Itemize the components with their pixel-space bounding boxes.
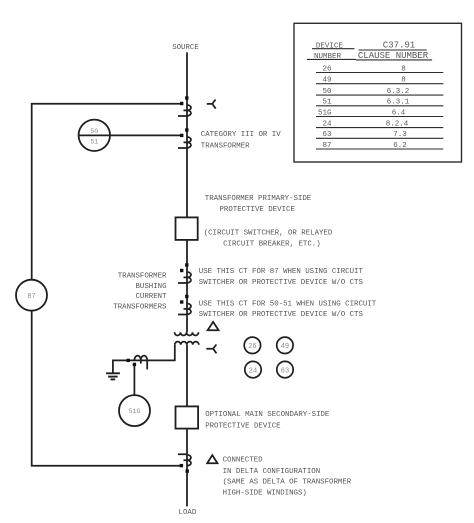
- wire 87 differential loop: top run, left rail, bottom run: [32, 104, 182, 466]
- relay 51G: [119, 395, 150, 426]
- svg-text:CATEGORY III OR IV: CATEGORY III OR IV: [201, 131, 281, 139]
- transformer T1 secondary winding: [175, 342, 199, 345]
- current transformer CT4 (bushing CT for 50-51): [178, 295, 191, 315]
- relay 87: [16, 280, 47, 311]
- wire neutral CT to 51G: [133, 366, 135, 395]
- relay 26: [244, 337, 260, 353]
- wire transformer neutral to ground: [113, 345, 175, 373]
- secondary-side protective device box: [176, 406, 199, 428]
- svg-text:SWITCHER OR PROTECTIVE DEVICE: SWITCHER OR PROTECTIVE DEVICE W/O CTS: [199, 279, 364, 287]
- transformer T1 primary winding: [175, 332, 199, 335]
- relay 63: [277, 361, 293, 377]
- label USE THIS CT FOR 50-51: [199, 300, 377, 319]
- current transformer CT5 (bottom, to 87): [178, 454, 191, 473]
- svg-text:USE THIS CT FOR 50-51 WHEN USI: USE THIS CT FOR 50-51 WHEN USING CIRCUIT: [199, 300, 377, 308]
- svg-text:SOURCE: SOURCE: [172, 44, 199, 52]
- label OPTIONAL MAIN SECONDARY-SIDE PROTECTIVE DEVICE: [205, 411, 330, 430]
- svg-text:CURRENT: CURRENT: [135, 293, 167, 301]
- label CONNECTED IN DELTA CONFIGURATION: [223, 457, 352, 498]
- svg-text:49: 49: [281, 343, 289, 351]
- table: device number / C37.91 clause reference: [294, 23, 462, 162]
- svg-text:(CIRCUIT SWITCHER, OR RELAYED: (CIRCUIT SWITCHER, OR RELAYED: [204, 230, 333, 238]
- current transformer CT6 (neutral CT): [127, 356, 148, 370]
- wire main bus (source to transformer primary): [186, 52, 188, 332]
- svg-text:LOAD: LOAD: [179, 509, 197, 517]
- relay 49: [277, 337, 293, 353]
- current transformer CT3 (bushing CT for 87): [178, 263, 191, 283]
- primary-side protective device box: [176, 217, 198, 240]
- svg-text:TRANSFORMER: TRANSFORMER: [118, 273, 167, 281]
- wye symbol (secondary winding configuration): [206, 345, 216, 354]
- svg-text:24: 24: [249, 367, 257, 375]
- svg-text:TRANSFORMER: TRANSFORMER: [201, 143, 250, 151]
- svg-text:TRANSFORMERS: TRANSFORMERS: [113, 304, 167, 312]
- delta symbol (primary winding configuration): [208, 322, 219, 330]
- svg-text:(SAME AS DELTA OF TRANSFORMER: (SAME AS DELTA OF TRANSFORMER: [223, 479, 352, 487]
- svg-text:PROTECTIVE DEVICE: PROTECTIVE DEVICE: [205, 422, 281, 430]
- svg-text:HIGH-SIDE WINDINGS): HIGH-SIDE WINDINGS): [223, 489, 307, 497]
- svg-text:OPTIONAL MAIN SECONDARY-SIDE: OPTIONAL MAIN SECONDARY-SIDE: [205, 411, 330, 419]
- relay 50/51: [79, 120, 110, 151]
- svg-text:DEVICE: DEVICE: [316, 43, 344, 51]
- svg-text:SWITCHER OR PROTECTIVE DEVICE: SWITCHER OR PROTECTIVE DEVICE W/O CTS: [199, 311, 364, 319]
- relay 24: [245, 361, 261, 377]
- label USE THIS CT FOR 87: [199, 268, 364, 287]
- svg-text:87: 87: [27, 293, 35, 301]
- svg-text:26: 26: [248, 343, 256, 351]
- svg-text:50: 50: [90, 128, 98, 135]
- svg-text:CIRCUIT BREAKER, ETC.): CIRCUIT BREAKER, ETC.): [223, 241, 321, 249]
- svg-text:63: 63: [281, 367, 289, 375]
- svg-text:USE THIS CT FOR 87 WHEN USING: USE THIS CT FOR 87 WHEN USING CIRCUIT: [199, 268, 364, 276]
- svg-text:BUSHING: BUSHING: [135, 283, 166, 291]
- wye symbol (source side grounding): [207, 100, 216, 109]
- table frame: [294, 23, 462, 162]
- ground symbol: [106, 373, 120, 379]
- delta symbol (CT delta connection): [207, 455, 217, 463]
- table header underlines: [307, 49, 432, 60]
- label CATEGORY III OR IV TRANSFORMER: [201, 131, 281, 151]
- current transformer CT2 (to 50/51): [178, 128, 191, 148]
- wire 50/51 relay to CT2 (and circle divider): [79, 134, 182, 136]
- svg-text:IN DELTA CONFIGURATION: IN DELTA CONFIGURATION: [223, 468, 321, 476]
- svg-text:51G: 51G: [129, 408, 141, 415]
- label TRANSFORMER PRIMARY-SIDE PROTECTIVE DEVICE: [204, 195, 333, 249]
- svg-text:C37.91: C37.91: [383, 41, 415, 51]
- svg-text:TRANSFORMER PRIMARY-SIDE: TRANSFORMER PRIMARY-SIDE: [205, 195, 312, 203]
- current transformer CT1 (top, to 87): [178, 96, 191, 116]
- svg-text:51: 51: [90, 139, 98, 146]
- wire main bus (transformer secondary to load): [186, 345, 188, 507]
- svg-text:PROTECTIVE DEVICE: PROTECTIVE DEVICE: [220, 206, 296, 214]
- label TRANSFORMER BUSHING CURRENT TRANSFORMERS: [113, 273, 167, 312]
- svg-text:CONNECTED: CONNECTED: [223, 457, 263, 465]
